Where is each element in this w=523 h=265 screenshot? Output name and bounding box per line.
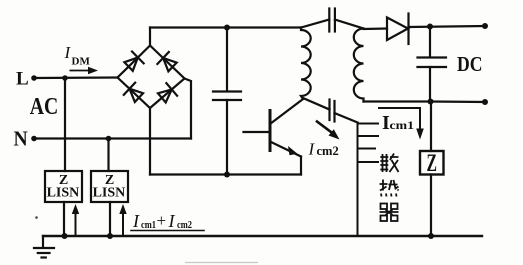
impedance Z box <box>420 151 444 175</box>
svg-text:DM: DM <box>72 56 91 68</box>
heatsink fin 1 <box>358 123 379 125</box>
wire label underline <box>131 230 204 232</box>
wire Z box to ground <box>430 175 432 237</box>
wire L to LISN1 vertical <box>64 78 66 171</box>
wire N to LISN2 vertical <box>107 139 109 172</box>
wire secondary top to diode <box>364 27 388 30</box>
wire top rail <box>150 26 301 28</box>
stray scan dot <box>35 216 38 219</box>
wire bottom rail <box>150 173 301 175</box>
node junction N-LISN2 <box>106 136 112 142</box>
svg-text:+: + <box>157 211 167 230</box>
node junction LISN2-ground <box>107 233 113 239</box>
wire bridge top to rail <box>149 28 151 46</box>
transistor Q1 emitter <box>270 142 301 157</box>
wire N line <box>34 137 191 139</box>
node junction DC cap top <box>427 24 433 30</box>
svg-text:L: L <box>16 69 29 90</box>
heatsink fin 3 <box>358 148 376 150</box>
heatsink label 热 (drawn) <box>380 180 399 197</box>
svg-text:I: I <box>132 211 140 231</box>
wire secondary bottom to DC- <box>364 100 431 102</box>
svg-text:I: I <box>64 43 72 62</box>
wire LISN2 to ground rail <box>109 202 111 236</box>
wire LISN1 to ground rail <box>63 202 65 236</box>
heatsink fin 4 <box>358 161 379 163</box>
heatsink label 器 (drawn) <box>380 204 399 222</box>
wire bridge bottom down <box>149 108 151 175</box>
capacitor DC output <box>429 27 431 58</box>
svg-text:DC: DC <box>457 52 483 76</box>
node DC- terminal dot <box>482 99 488 105</box>
wire diode to DC+ <box>409 26 486 27</box>
svg-text:I: I <box>308 140 316 159</box>
diode bridge D3 bottom-left <box>124 83 145 104</box>
diode output D5 <box>387 18 408 41</box>
wire N to bridge right vertex <box>185 79 192 139</box>
transistor Q1 bar <box>269 111 272 151</box>
node N terminal dot <box>31 136 37 142</box>
diode bridge D4 bottom-right <box>156 83 177 104</box>
transformer primary winding <box>301 28 311 100</box>
svg-text:I: I <box>168 211 176 231</box>
transistor Q1 base stub <box>244 131 271 133</box>
node junction DC- <box>428 99 434 105</box>
svg-text:cm1: cm1 <box>141 219 156 231</box>
svg-text:cm2: cm2 <box>177 219 192 231</box>
node junction top rail / bulk cap <box>224 25 230 31</box>
node L terminal dot <box>31 75 37 81</box>
LISN box 2 <box>91 171 128 202</box>
svg-text:LISN: LISN <box>47 186 80 201</box>
arrow Icm up at LISN2 <box>122 211 124 234</box>
svg-text:N: N <box>14 126 29 150</box>
node junction LISN1-ground <box>62 233 68 239</box>
arrow IDM <box>70 70 91 72</box>
diode bridge D1 top-left <box>123 52 144 73</box>
wire ground rail <box>43 235 482 237</box>
LISN box 1 <box>45 171 82 202</box>
svg-text:cm2: cm2 <box>317 144 339 158</box>
wire Z branch down <box>430 102 432 152</box>
heatsink fin 2 <box>358 135 379 137</box>
node junction Z-ground <box>428 233 434 239</box>
wire emitter down <box>300 157 302 175</box>
svg-text:LISN: LISN <box>93 186 126 201</box>
arrow Icm up at LISN1 <box>75 211 77 234</box>
capacitor parasitic collector-heatsink <box>303 98 330 110</box>
capacitor winding parasitic top <box>301 20 329 28</box>
ground symbol <box>42 236 44 248</box>
heatsink body <box>357 123 359 237</box>
svg-text:AC: AC <box>30 94 59 120</box>
wire DC- rail <box>431 100 486 103</box>
wire L line <box>34 76 118 79</box>
faint scan artifact bottom <box>185 262 258 264</box>
diode bridge diamond <box>118 46 185 109</box>
transistor Q1 collector <box>270 99 303 124</box>
arrow Icm1 bent <box>379 108 420 130</box>
node junction bottom rail / bulk cap <box>224 172 230 178</box>
heatsink label 散 (drawn) <box>380 154 398 173</box>
transformer secondary winding <box>354 29 364 102</box>
node junction L-LISN1 <box>62 75 68 81</box>
node DC+ terminal dot <box>482 23 488 29</box>
diode bridge D2 top-right <box>157 52 178 73</box>
arrow Icm2 diagonal <box>317 122 333 134</box>
capacitor bulk C1 <box>226 28 228 92</box>
svg-text:Z: Z <box>427 150 438 177</box>
svg-text:cm1: cm1 <box>390 120 415 132</box>
